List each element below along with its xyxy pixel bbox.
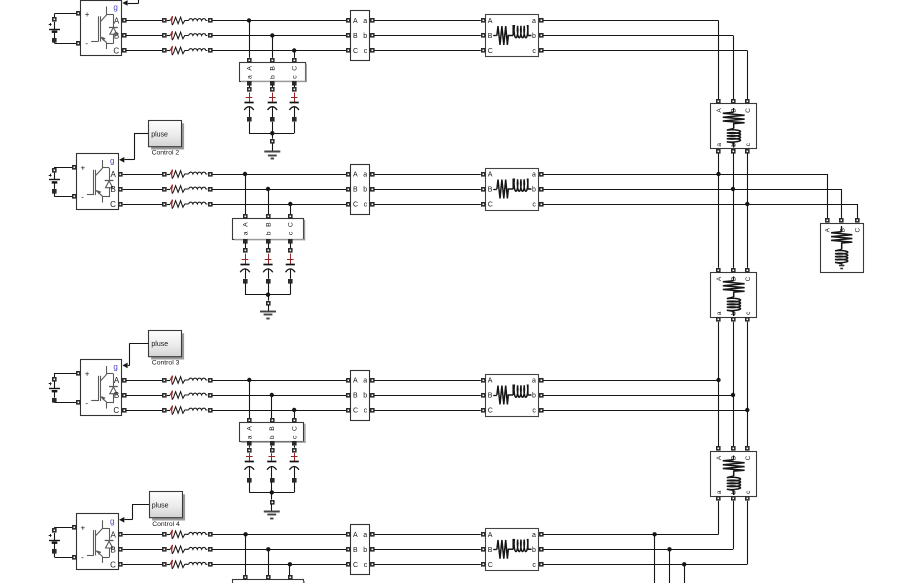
wire tap row4 C down — [289, 564, 291, 575]
svg-text:B: B — [353, 393, 358, 400]
wire row3 B measurement to branch — [374, 395, 481, 397]
series RL branch RL2a — [162, 170, 213, 179]
svg-text:a: a — [532, 172, 536, 179]
svg-text:Control 4: Control 4 — [152, 521, 180, 528]
bridge U3 ports — [76, 371, 127, 413]
wire row3 phase A bridge to RL — [126, 380, 162, 382]
svg-text:+: + — [81, 524, 86, 533]
svg-text:b: b — [731, 311, 738, 315]
svg-text:b: b — [265, 231, 272, 235]
measurement M4 ports — [346, 532, 375, 567]
capacitor C1a — [244, 85, 254, 133]
svg-text:-: - — [85, 399, 88, 408]
capacitor bank measurement block B3 body — [240, 423, 306, 443]
svg-text:A: A — [488, 172, 493, 179]
svg-text:B: B — [111, 545, 116, 554]
wire row3 phase A RL to measurement — [212, 380, 346, 382]
svg-text:a: a — [363, 378, 367, 385]
svg-text:A: A — [242, 222, 249, 227]
ground G2 — [260, 305, 276, 318]
svg-text:b: b — [532, 547, 536, 554]
bank B2 pin labels — [242, 222, 294, 235]
wire row2 B to load — [543, 189, 842, 219]
branch Z1 pin labels — [488, 18, 537, 55]
wire row3 A measurement to branch — [374, 380, 481, 382]
svg-text:b: b — [269, 435, 276, 439]
series RL branch RL4a — [162, 530, 213, 539]
branch Z2 pin labels — [488, 172, 537, 209]
junction row2 C tap — [288, 202, 292, 206]
vertical feeder c block1 to block2 — [745, 153, 749, 267]
svg-text:C: C — [488, 202, 493, 209]
svg-text:A: A — [716, 276, 723, 281]
svg-text:B: B — [488, 393, 493, 400]
capacitor bank measurement block B1 body — [240, 63, 308, 83]
measurement M4 pin labels — [353, 532, 368, 569]
capacitor C3b — [267, 446, 277, 493]
junction row1 C tap — [292, 48, 296, 52]
capacitor C3a — [245, 446, 255, 493]
wire row2 B measurement to branch — [374, 189, 481, 191]
branch Z2 ports — [481, 172, 544, 207]
svg-text:C: C — [353, 562, 358, 569]
wire tap row2 A down — [245, 174, 247, 214]
capacitor C2b — [263, 243, 273, 294]
R-L-ground icon inside load — [831, 226, 852, 269]
branch T1 pin labels — [716, 108, 752, 147]
svg-text:a: a — [716, 311, 723, 315]
svg-text:b: b — [532, 187, 536, 194]
branch T3 pin labels — [716, 455, 752, 494]
DC voltage source E3 — [49, 373, 81, 403]
bridge U3 pin labels — [85, 363, 120, 416]
wire from pulse block Control 2 — [134, 133, 148, 135]
svg-text:g: g — [110, 157, 114, 166]
junction row3 C tap — [292, 408, 296, 412]
svg-text:c: c — [532, 48, 536, 55]
R-L icon inside branch T2 — [723, 277, 745, 317]
svg-text:A: A — [353, 378, 358, 385]
svg-text:g: g — [113, 3, 117, 12]
gate wire corner row 2 — [134, 134, 136, 160]
measurement M3 ports — [346, 378, 375, 413]
wire row1 A to column — [543, 21, 718, 100]
gate wire with arrow into bridge U1 — [122, 0, 138, 6]
svg-text:B: B — [731, 108, 738, 112]
svg-text:-: - — [85, 39, 88, 48]
wire row4 phase B RL to measurement — [212, 549, 346, 551]
wire row2 phase A bridge to RL — [123, 174, 163, 176]
wire row3 B to column — [543, 395, 733, 397]
wire tap row3 C down — [294, 410, 296, 418]
wire row2 C to load — [543, 204, 857, 219]
wire row3 A to column — [543, 380, 718, 382]
wire row3 C measurement to branch — [374, 410, 481, 412]
svg-text:A: A — [246, 66, 253, 71]
R-L icon inside branch Z2 — [493, 179, 531, 198]
svg-text:A: A — [247, 426, 254, 431]
svg-text:A: A — [716, 455, 723, 460]
vertical feeder a block1 to block2 — [716, 153, 720, 267]
svg-text:g: g — [113, 363, 117, 372]
IGBT/diode icon inside bridge U4 — [87, 520, 114, 563]
bridge U2 pin labels — [81, 157, 117, 210]
three-phase series RLC branch Z4 body — [486, 529, 539, 571]
junction row3 B tap — [270, 393, 274, 397]
DC voltage source E2 — [49, 167, 77, 197]
svg-text:B: B — [731, 277, 738, 281]
svg-text:B: B — [488, 547, 493, 554]
junction row4 C tap — [288, 562, 292, 566]
wire row1 C measurement to branch — [374, 50, 481, 52]
svg-text:pluse: pluse — [152, 503, 169, 510]
svg-text:B: B — [839, 228, 846, 232]
svg-text:C: C — [745, 108, 752, 113]
svg-text:B: B — [114, 391, 119, 400]
wire row1 C to column — [543, 51, 747, 100]
svg-text:b: b — [363, 33, 367, 40]
svg-text:Control 2: Control 2 — [152, 150, 180, 157]
wire row1 phase A bridge to RL — [126, 20, 162, 22]
branch T1 ports — [716, 99, 750, 154]
svg-text:b: b — [363, 187, 367, 194]
svg-text:a: a — [242, 231, 249, 235]
junction row1 B tap — [270, 33, 274, 37]
svg-text:-: - — [81, 553, 84, 562]
gate wire corner row 3 — [129, 343, 131, 365]
svg-text:g: g — [110, 517, 114, 526]
svg-text:C: C — [488, 562, 493, 569]
svg-text:A: A — [716, 108, 723, 113]
svg-text:B: B — [488, 33, 493, 40]
IGBT bridge converter U1 body — [81, 1, 122, 56]
load pin labels — [825, 227, 862, 232]
bank B2 ports — [243, 214, 293, 244]
svg-text:A: A — [488, 18, 493, 25]
svg-text:b: b — [731, 490, 738, 494]
capacitor C3c — [289, 446, 299, 493]
svg-text:B: B — [353, 33, 358, 40]
bank B3 pin labels — [247, 426, 299, 439]
series RL branch RL3c — [162, 406, 213, 415]
wire row1 B to column — [543, 36, 733, 100]
wire row2 phase A RL to measurement — [212, 174, 346, 176]
neutral bus of bank 3 — [249, 490, 294, 504]
wire row2 phase B RL to measurement — [212, 189, 346, 191]
svg-text:c: c — [292, 435, 299, 439]
wire tap row2 B down — [268, 189, 270, 214]
svg-text:b: b — [363, 393, 367, 400]
series RL branch RL4b — [162, 545, 213, 554]
svg-text:a: a — [532, 532, 536, 539]
svg-text:C: C — [745, 455, 752, 460]
svg-text:c: c — [364, 202, 368, 209]
series RL branch RL2b — [162, 185, 213, 194]
wire row4 C up to block3 and drop — [543, 501, 747, 583]
wire row3 phase C bridge to RL — [126, 410, 162, 412]
vertical three-phase series RLC branch T2 body — [711, 273, 757, 318]
capacitor bank measurement block B2 body — [233, 219, 306, 241]
svg-text:B: B — [114, 32, 119, 41]
svg-text:b: b — [731, 143, 738, 147]
measurement M2 ports — [346, 172, 375, 207]
wire row2 phase C bridge to RL — [123, 204, 163, 206]
junction row2 B tap — [266, 187, 270, 191]
svg-text:A: A — [488, 532, 493, 539]
wire row4 A measurement to branch — [374, 534, 481, 536]
bridge U2 ports — [72, 165, 123, 207]
wire row4 phase B bridge to RL — [123, 549, 163, 551]
svg-text:b: b — [532, 393, 536, 400]
label Control 4 — [152, 521, 180, 528]
junction row4 B tap — [266, 547, 270, 551]
svg-text:B: B — [265, 222, 272, 227]
three-phase V-I measurement block M2 — [351, 165, 370, 215]
series RL branch RL3b — [162, 391, 213, 400]
svg-text:A: A — [353, 532, 358, 539]
IGBT bridge converter U3 body — [81, 360, 122, 416]
neutral bus of bank 1 — [249, 131, 294, 144]
capacitor C1c — [289, 85, 299, 133]
wire row1 phase B bridge to RL — [126, 35, 162, 37]
svg-text:C: C — [488, 408, 493, 415]
vertical three-phase series RLC branch T1 body — [711, 104, 757, 149]
three-phase V-I measurement block M4 — [351, 525, 370, 575]
svg-text:C: C — [110, 560, 116, 569]
wire row3 phase B bridge to RL — [126, 395, 162, 397]
svg-text:C: C — [353, 202, 358, 209]
label Control 3 — [152, 360, 180, 367]
series RL branch RL1a — [162, 16, 213, 25]
wire row1 A measurement to branch — [374, 20, 481, 22]
svg-text:C: C — [110, 200, 116, 209]
svg-text:C: C — [288, 222, 295, 227]
wire tap row3 B down — [271, 395, 273, 418]
svg-text:A: A — [825, 227, 832, 232]
measurement M1 pin labels — [353, 18, 368, 55]
wire row4 C measurement to branch — [374, 564, 481, 566]
R-L icon inside branch Z4 — [493, 540, 531, 559]
svg-text:C: C — [292, 426, 299, 431]
branch T2 pin labels — [716, 276, 752, 315]
branch T3 ports — [716, 446, 750, 501]
series RL branch RL1b — [162, 31, 213, 40]
IGBT/diode icon inside bridge U1 — [91, 7, 118, 50]
pulse generator subsystem block (Control 3) — [149, 331, 185, 360]
ground G1 — [264, 143, 280, 158]
series RL branch RL3a — [162, 376, 213, 385]
svg-text:C: C — [745, 276, 752, 281]
gate wire with arrow into bridge U2 — [119, 157, 134, 163]
wire row2 A measurement to branch — [374, 174, 481, 176]
IGBT/diode icon inside bridge U2 — [87, 160, 114, 203]
wire row1 phase C RL to measurement — [212, 50, 346, 52]
svg-text:C: C — [353, 408, 358, 415]
svg-text:C: C — [292, 66, 299, 71]
svg-text:B: B — [270, 66, 277, 71]
IGBT/diode icon inside bridge U3 — [91, 366, 118, 409]
series RL branch RL1c — [162, 46, 213, 55]
svg-text:pluse: pluse — [151, 131, 168, 138]
wire row4 phase A RL to measurement — [212, 534, 346, 536]
wire tap row4 B down — [268, 549, 270, 575]
wire tap row1 A down — [249, 21, 251, 58]
wire row2 phase B bridge to RL — [123, 189, 163, 191]
wire row1 phase A RL to measurement — [212, 20, 346, 22]
three-phase V-I measurement block M1 — [351, 11, 370, 61]
svg-text:C: C — [353, 48, 358, 55]
wire row4 B measurement to branch — [374, 549, 481, 551]
wire row3 phase B RL to measurement — [212, 395, 346, 397]
neutral bus of bank 2 — [245, 293, 290, 306]
svg-text:a: a — [363, 172, 367, 179]
bridge U1 pin labels — [85, 3, 120, 56]
vertical feeder c block2 to block3 — [745, 322, 749, 447]
svg-text:b: b — [532, 33, 536, 40]
IGBT bridge converter U2 body — [77, 154, 119, 210]
three-phase V-I measurement block M3 — [351, 371, 370, 421]
svg-text:a: a — [363, 18, 367, 25]
svg-text:c: c — [532, 562, 536, 569]
svg-text:+: + — [85, 10, 90, 19]
svg-text:A: A — [114, 376, 120, 385]
wire row1 B measurement to branch — [374, 35, 481, 37]
wire tap row1 B down — [272, 36, 274, 58]
svg-text:c: c — [532, 202, 536, 209]
wire tap row2 C down — [290, 204, 292, 214]
three-phase series RLC branch Z1 body — [486, 15, 539, 57]
DC voltage source E4 — [49, 527, 77, 557]
svg-text:c: c — [288, 231, 295, 235]
branch Z3 pin labels — [488, 378, 537, 415]
wire row4 A up to block3 and drop — [543, 501, 718, 583]
svg-text:A: A — [353, 18, 358, 25]
label Control 2 — [152, 150, 180, 157]
svg-text:c: c — [364, 562, 368, 569]
wire tap row1 C down — [294, 51, 296, 58]
wire row3 C to column — [543, 410, 747, 412]
svg-text:B: B — [353, 547, 358, 554]
R-L icon inside branch Z3 — [493, 385, 531, 404]
branch T2 ports — [716, 268, 750, 322]
svg-text:C: C — [488, 48, 493, 55]
gate wire corner row 4 — [132, 505, 134, 520]
svg-text:a: a — [716, 490, 723, 494]
svg-text:-: - — [81, 193, 84, 202]
svg-text:C: C — [113, 406, 119, 415]
svg-text:a: a — [247, 435, 254, 439]
capacitor C2a — [240, 243, 250, 294]
gate wire with arrow into bridge U4 — [119, 517, 132, 523]
branch Z1 ports — [481, 18, 544, 53]
capacitor C2c — [286, 243, 296, 294]
svg-text:a: a — [363, 532, 367, 539]
bank B4 ports — [243, 575, 293, 580]
branch Z4 ports — [481, 532, 544, 567]
three-phase series RLC branch Z3 body — [486, 375, 539, 417]
vertical feeder b block2 to block3 — [731, 322, 735, 447]
junction row2 A tap — [243, 172, 247, 176]
svg-text:B: B — [731, 456, 738, 460]
junction row3 A tap — [247, 378, 251, 382]
R-L icon inside branch T3 — [723, 456, 745, 496]
svg-text:C: C — [855, 228, 862, 233]
svg-text:b: b — [363, 547, 367, 554]
series RL branch RL2c — [162, 200, 213, 209]
gate wire with arrow into bridge U3 — [122, 363, 129, 369]
measurement M1 ports — [346, 18, 375, 53]
junction row4 A tap — [243, 532, 247, 536]
R-L icon inside branch Z1 — [493, 26, 531, 45]
DC voltage source E1 — [49, 14, 81, 44]
capacitor C1b — [268, 85, 278, 133]
wire from pulse block Control 3 — [130, 343, 149, 345]
svg-text:B: B — [488, 187, 493, 194]
wire tap row3 A down — [249, 380, 251, 418]
measurement M3 pin labels — [353, 378, 368, 415]
bridge U4 pin labels — [81, 517, 117, 570]
svg-text:A: A — [111, 170, 117, 179]
svg-text:A: A — [353, 172, 358, 179]
svg-text:+: + — [81, 163, 86, 172]
bridge U1 ports — [76, 11, 127, 53]
wire row2 phase C RL to measurement — [212, 204, 346, 206]
wire row4 phase C bridge to RL — [123, 564, 163, 566]
wire row3 phase C RL to measurement — [212, 410, 346, 412]
R-L icon inside branch T1 — [723, 108, 745, 148]
vertical feeder a block2 to block3 — [716, 322, 720, 447]
svg-text:Control 3: Control 3 — [152, 360, 180, 367]
wire tap row4 A down — [245, 534, 247, 575]
svg-text:c: c — [532, 408, 536, 415]
junction row1 A tap — [247, 18, 251, 22]
bank B3 ports — [247, 418, 297, 446]
wire row2 A to load — [543, 174, 827, 219]
branch Z3 ports — [481, 378, 544, 413]
svg-text:B: B — [111, 185, 116, 194]
three-phase series RLC load body — [821, 224, 864, 273]
wire row4 phase A bridge to RL — [123, 534, 163, 536]
svg-text:a: a — [716, 143, 723, 147]
svg-text:C: C — [113, 47, 119, 56]
bridge U4 ports — [72, 525, 123, 567]
load ports — [825, 218, 860, 223]
wire row1 phase B RL to measurement — [212, 35, 346, 37]
bank B1 ports — [247, 58, 297, 86]
three-phase series RLC branch Z2 body — [486, 169, 539, 211]
capacitor bank measurement block B4 body — [233, 580, 306, 583]
branch Z4 pin labels — [488, 532, 537, 569]
svg-text:B: B — [269, 426, 276, 431]
svg-text:A: A — [488, 378, 493, 385]
wire row2 C measurement to branch — [374, 204, 481, 206]
wire row4 phase C RL to measurement — [212, 564, 346, 566]
svg-text:A: A — [114, 17, 120, 26]
svg-text:a: a — [532, 18, 536, 25]
svg-text:c: c — [364, 48, 368, 55]
pulse generator subsystem block (Control 2) — [149, 121, 185, 150]
ground G3 — [264, 504, 280, 519]
IGBT bridge converter U4 body — [77, 514, 119, 570]
svg-text:+: + — [85, 369, 90, 378]
svg-text:B: B — [353, 187, 358, 194]
svg-text:pluse: pluse — [151, 341, 168, 348]
vertical three-phase series RLC branch T3 body — [711, 452, 757, 497]
vertical feeder b block1 to block2 — [731, 153, 735, 267]
pulse generator subsystem block (Control 4) — [150, 492, 186, 521]
bank B1 pin labels — [246, 66, 298, 79]
wire from pulse block Control 4 — [132, 504, 149, 506]
